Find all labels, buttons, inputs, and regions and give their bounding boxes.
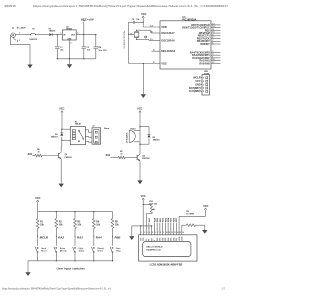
svg-text:15: 15: [179, 232, 181, 234]
svg-text:RA2: RA2: [58, 235, 64, 239]
svg-text:VCC: VCC: [59, 108, 64, 111]
svg-text:PN2222: PN2222: [65, 157, 73, 159]
svg-text:MCLR/RA5: MCLR/RA5: [161, 49, 175, 53]
svg-text:DC JACK: DC JACK: [17, 27, 26, 30]
svg-text:DB7: DB7: [176, 238, 178, 241]
svg-text:1/1: 1/1: [222, 286, 226, 290]
svg-text:1: 1: [19, 32, 20, 34]
svg-text:C3: C3: [98, 47, 100, 49]
svg-text:RA4: RA4: [96, 235, 102, 239]
svg-text:(Menu)+: (Menu)+: [60, 250, 68, 252]
svg-text:1N4001: 1N4001: [49, 30, 56, 33]
svg-text:Boot: Boot: [104, 127, 109, 130]
svg-text:DB2: DB2: [162, 238, 164, 241]
svg-text:HELLO WORLD: HELLO WORLD: [146, 246, 163, 248]
svg-text:10u, 25V: 10u, 25V: [98, 50, 107, 52]
svg-text:11: 11: [169, 232, 171, 234]
svg-text:RA3: RA3: [28, 154, 33, 156]
svg-text:HD44780 LCD: HD44780 LCD: [146, 248, 161, 251]
svg-text:VCC: VCC: [35, 197, 40, 200]
svg-text:1: 1: [60, 33, 61, 35]
svg-text:1N4001: 1N4001: [153, 139, 161, 142]
svg-text:5V BUZZER: 5V BUZZER: [126, 132, 128, 143]
svg-text:RB0: RB0: [115, 235, 121, 239]
svg-text:RS: RS: [149, 239, 151, 241]
svg-text:Setup: Setup: [60, 247, 66, 250]
svg-text:X1 4MHZ CRYSTAL: X1 4MHZ CRYSTAL: [123, 29, 126, 48]
svg-text:16: 16: [182, 232, 184, 234]
svg-text:ON/OFF: ON/OFF: [29, 39, 38, 41]
svg-text:12: 12: [171, 232, 173, 234]
svg-text:VCC=+5V: VCC=+5V: [81, 17, 94, 21]
svg-text:VCC: VCC: [203, 205, 208, 208]
svg-text:4/6/2016: 4/6/2016: [4, 4, 16, 8]
svg-text:OSC2/RA6: OSC2/RA6: [161, 38, 175, 42]
svg-text:OSC1/RA7: OSC1/RA7: [161, 31, 175, 35]
svg-text:RELAY: RELAY: [75, 123, 82, 126]
svg-text:https://easyeda.com/export_5W4: https://easyeda.com/export_5W448TK0mRest…: [2, 286, 111, 290]
svg-text:LCD1 ADM1602K-NSW-FBS: LCD1 ADM1602K-NSW-FBS: [150, 264, 183, 267]
svg-text:Start/: Start/: [41, 247, 46, 250]
svg-text:7: 7: [158, 232, 159, 234]
svg-text:1N4007: 1N4007: [51, 136, 59, 139]
svg-text:VCC: VCC: [141, 195, 146, 198]
svg-text:User Input switches: User Input switches: [57, 267, 86, 271]
svg-text:VCC: VCC: [141, 13, 146, 16]
svg-text:VSS: VSS: [141, 238, 143, 241]
svg-text:BUZ1: BUZ1: [130, 128, 136, 130]
svg-text:PCT 10k: PCT 10k: [149, 203, 158, 205]
svg-text:10: 10: [166, 232, 168, 234]
svg-text:78M05: 78M05: [66, 28, 72, 30]
svg-text:6: 6: [155, 232, 156, 234]
svg-text:2: 2: [203, 81, 204, 83]
svg-text:MCLR: MCLR: [40, 235, 49, 239]
svg-text:VDD: VDD: [161, 25, 167, 29]
svg-text:Select: Select: [97, 249, 103, 252]
svg-text:3: 3: [147, 232, 148, 234]
svg-text:2: 2: [19, 40, 20, 42]
svg-text:ICSP: ICSP: [204, 73, 210, 75]
svg-text:PIC16F628A: PIC16F628A: [183, 19, 197, 22]
svg-text:3: 3: [77, 33, 78, 35]
svg-text:5: 5: [203, 91, 204, 93]
svg-text:13: 13: [174, 232, 176, 234]
svg-text:RA3: RA3: [77, 235, 83, 239]
svg-text:1: 1: [203, 78, 204, 80]
svg-text:DB6: DB6: [173, 238, 175, 241]
svg-text:https://easyeda.com/export_5W4: https://easyeda.com/export_5W448TK0mRest…: [33, 4, 228, 8]
svg-text:9: 9: [163, 232, 164, 234]
svg-text:DB5: DB5: [171, 238, 173, 241]
svg-text:/Stop: /Stop: [116, 249, 122, 252]
svg-text:RB0/INT: RB0/INT: [200, 43, 210, 46]
svg-text:Reset: Reset: [41, 249, 47, 252]
svg-text:Start: Start: [116, 247, 121, 250]
svg-text:RA2: RA2: [106, 155, 111, 157]
svg-text:DB0: DB0: [157, 238, 159, 241]
svg-text:2: 2: [71, 43, 72, 45]
svg-text:DB3: DB3: [165, 238, 167, 241]
svg-text:VSS: VSS: [161, 61, 167, 65]
svg-text:PN2222: PN2222: [142, 158, 150, 160]
svg-text:1: 1: [141, 232, 142, 234]
svg-text:3: 3: [203, 84, 204, 86]
svg-text:E: E: [154, 240, 156, 241]
svg-text:DB1: DB1: [160, 238, 162, 241]
svg-text:VCC: VCC: [137, 108, 142, 111]
svg-text:RA0/AN0: RA0/AN0: [199, 62, 210, 65]
svg-text:10 OHM: 10 OHM: [186, 213, 194, 215]
svg-text:Select: Select: [79, 249, 85, 252]
svg-text:J2: J2: [92, 125, 94, 127]
svg-text:CLK(RB6): CLK(RB6): [189, 90, 201, 93]
